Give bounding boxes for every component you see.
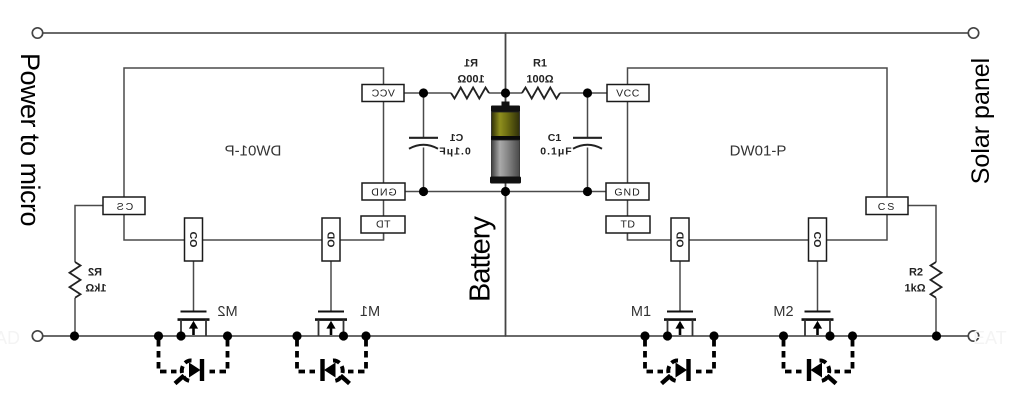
svg-text:AD: AD bbox=[0, 328, 20, 348]
svg-text:Solar panel: Solar panel bbox=[967, 58, 995, 184]
svg-text:EAT: EAT bbox=[973, 328, 1007, 348]
svg-text:Power to micro: Power to micro bbox=[15, 53, 45, 226]
svg-text:Battery: Battery bbox=[465, 216, 497, 302]
